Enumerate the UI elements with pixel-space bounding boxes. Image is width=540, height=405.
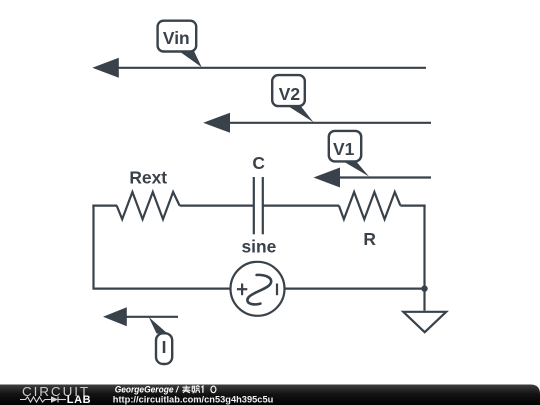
- wire top-left to Rext: [92, 205, 117, 207]
- ground symbol: [403, 312, 446, 332]
- capacitor C plate right: [262, 177, 264, 234]
- wire bottom-right: [285, 288, 425, 290]
- wire C to R: [263, 205, 339, 207]
- wire Vin probe line: [118, 67, 426, 69]
- logo schematic line: [20, 397, 66, 403]
- arrowhead V2 probe: [203, 113, 230, 133]
- svg-text:V2: V2: [279, 84, 300, 104]
- junction dot: [421, 285, 427, 291]
- svg-text:sine: sine: [241, 236, 276, 256]
- resistor R: [339, 192, 401, 219]
- flag box Vin: [158, 21, 197, 52]
- svg-text:http://circuitlab.com/cn53g4h3: http://circuitlab.com/cn53g4h395c5u: [113, 395, 274, 405]
- capacitor C plate left: [253, 177, 255, 234]
- flag tail V2: [286, 105, 314, 123]
- footer fullwidth 1: [201, 386, 203, 393]
- wire bottom-left: [94, 288, 231, 290]
- svg-text:V1: V1: [333, 139, 355, 159]
- minus sign (rotated): [276, 284, 278, 296]
- svg-text:Vin: Vin: [163, 28, 190, 48]
- arrowhead Vin probe: [92, 58, 119, 78]
- footer fullwidth 0: [211, 386, 216, 393]
- wire R to top-right corner: [400, 205, 425, 207]
- wire V1 probe line: [339, 176, 431, 178]
- wire right vertical: [423, 205, 425, 289]
- svg-text:C: C: [252, 153, 265, 173]
- svg-text:R: R: [363, 229, 376, 249]
- flag box V1: [329, 131, 361, 162]
- svg-text:I: I: [162, 337, 167, 357]
- wire V2 probe line: [229, 122, 431, 124]
- flag tail V1: [341, 160, 369, 177]
- footer kanji 験: [192, 386, 200, 393]
- flag tail I: [149, 317, 168, 333]
- flag tail Vin: [176, 49, 202, 67]
- wire I probe line: [126, 316, 178, 318]
- arrowhead V1 probe: [314, 168, 341, 188]
- sine squiggle: [247, 275, 271, 305]
- wire left vertical: [92, 205, 94, 290]
- voltage source SINE (sine) circle: [231, 262, 285, 316]
- resistor Rext: [117, 192, 180, 219]
- svg-text:LAB: LAB: [67, 394, 91, 405]
- arrowhead I probe: [103, 307, 127, 326]
- logo diode: [51, 396, 58, 402]
- wire Rext to C: [180, 205, 254, 207]
- footer kanji 実: [182, 386, 190, 393]
- svg-text:Rext: Rext: [129, 167, 167, 187]
- flag box I: [156, 333, 172, 364]
- plus sign: [237, 288, 247, 290]
- ground stem wire: [423, 289, 425, 311]
- flag box V2: [272, 75, 305, 106]
